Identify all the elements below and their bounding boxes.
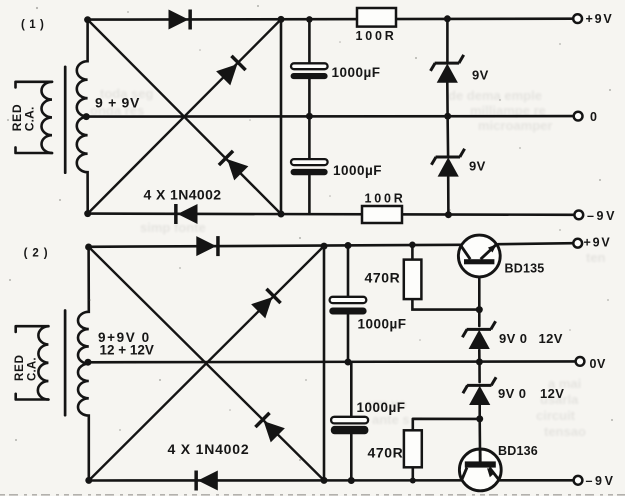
svg-text:RED: RED: [14, 354, 26, 381]
svg-text:9V: 9V: [469, 159, 486, 174]
svg-text:de dema emple: de dema emple: [448, 88, 542, 103]
svg-text:1000µF: 1000µF: [333, 163, 382, 178]
svg-text:12V: 12V: [540, 386, 564, 401]
svg-text:+9V: +9V: [584, 236, 612, 250]
svg-text:9V 0: 9V 0: [498, 386, 526, 401]
svg-text:12V: 12V: [539, 331, 563, 346]
svg-text:ten: ten: [586, 250, 606, 265]
svg-text:12 + 12V: 12 + 12V: [100, 343, 154, 358]
svg-text:–9V: –9V: [586, 474, 616, 488]
svg-text:C.A.: C.A.: [27, 357, 39, 381]
svg-text:–9V: –9V: [587, 209, 617, 223]
svg-text:microamper: microamper: [478, 118, 552, 133]
svg-text:470R: 470R: [365, 270, 401, 286]
svg-text:9V 0: 9V 0: [499, 331, 527, 346]
svg-text:( 2 ): ( 2 ): [24, 248, 49, 260]
svg-text:1000µF: 1000µF: [358, 317, 407, 332]
svg-text:( 1 ): ( 1 ): [21, 19, 44, 31]
svg-text:1000µF: 1000µF: [332, 65, 381, 80]
svg-text:BD135: BD135: [505, 262, 545, 276]
svg-text:BD136: BD136: [498, 444, 538, 458]
svg-text:0V: 0V: [590, 357, 607, 371]
svg-text:9V: 9V: [472, 68, 489, 83]
svg-text:circuit: circuit: [536, 408, 576, 423]
svg-text:9 + 9V: 9 + 9V: [95, 94, 140, 110]
svg-text:1000µF: 1000µF: [357, 400, 406, 415]
svg-text:4 X 1N4002: 4 X 1N4002: [168, 441, 250, 457]
svg-text:100R: 100R: [356, 29, 397, 43]
svg-text:C.A.: C.A.: [23, 106, 37, 131]
svg-text:470R: 470R: [368, 445, 404, 461]
svg-text:100R: 100R: [365, 192, 406, 206]
svg-text:+9V: +9V: [586, 12, 614, 26]
svg-text:tensao: tensao: [544, 424, 586, 439]
svg-text:0: 0: [590, 110, 597, 124]
svg-text:4 X 1N4002: 4 X 1N4002: [144, 186, 222, 202]
